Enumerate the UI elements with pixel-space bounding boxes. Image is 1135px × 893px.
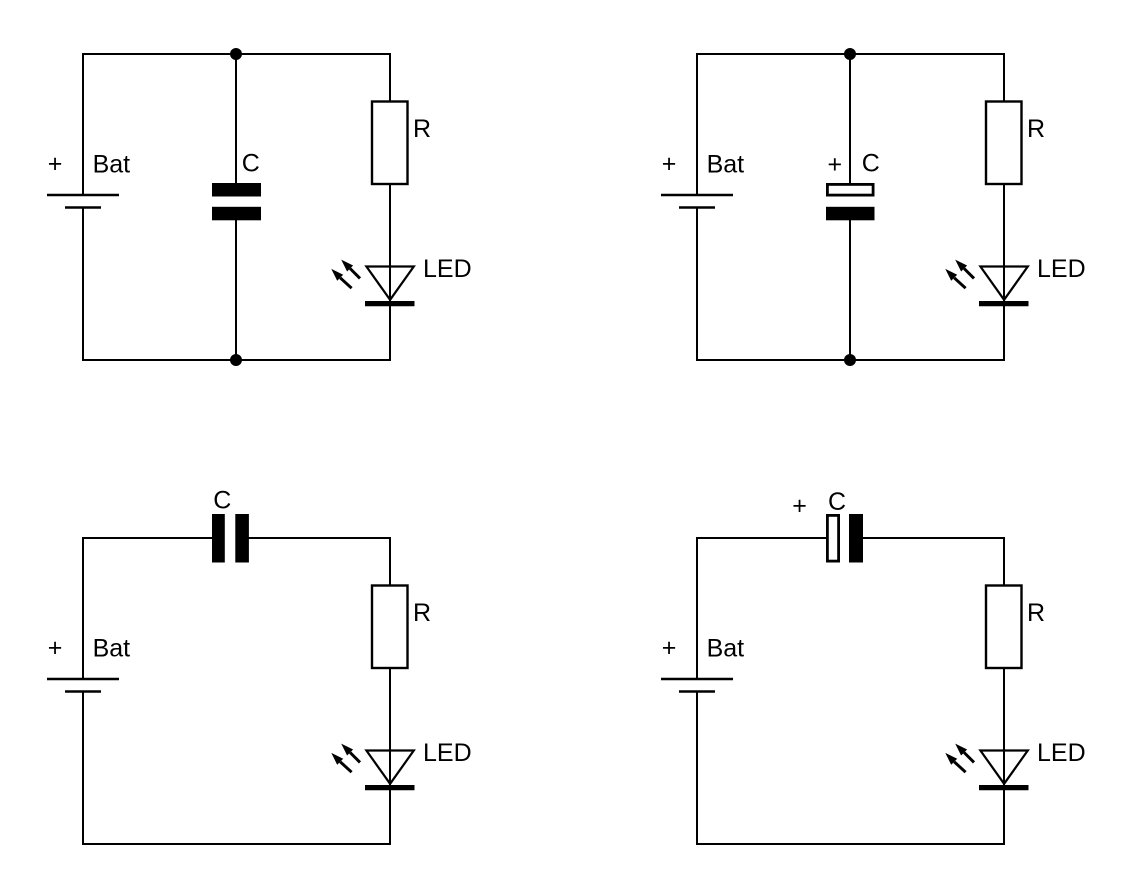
wire left rail lower segment (battery to bottom corner) of circuit 1 [82,208,84,361]
wire right rail lower segment (LED to bottom corner) of circuit 3 [389,788,391,844]
node junction dot on bottom rail of circuit 1 [230,354,242,366]
svg-text:LED: LED [1037,255,1086,283]
svg-text:+: + [792,492,807,520]
LED LED2 (diode triangle, cathode bar, light-emission arrows) [980,267,1027,300]
svg-text:+: + [662,150,677,178]
svg-text:LED: LED [423,255,472,283]
svg-text:R: R [413,115,431,143]
capacitor C1 (non-polarized, two horizontal plates) [212,183,261,197]
wire capacitor branch upper segment of circuit 2 [849,54,851,184]
svg-text:C: C [213,486,231,514]
svg-text:+: + [662,634,677,662]
wire top-right segment of circuit 4 [863,537,1004,539]
svg-text:R: R [1027,115,1045,143]
wire right rail middle segment (resistor to LED) of circuit 2 [1003,184,1005,304]
LED LED4 (diode triangle, cathode bar, light-emission arrows) [980,751,1027,784]
wire capacitor branch lower segment of circuit 2 [849,220,851,360]
wire right rail upper segment (top corner to resistor) of circuit 2 [1003,54,1005,102]
wire right rail lower segment (LED to bottom corner) of circuit 4 [1003,788,1005,844]
wire right rail upper segment (top corner to resistor) of circuit 3 [389,538,391,586]
resistor R2 (rectangular body) [986,102,1022,185]
wire top-right segment of circuit 3 [249,537,390,539]
battery Bat2 (cell symbol: long positive plate and short negative plate) [661,194,733,197]
wire left rail lower segment (battery to bottom corner) of circuit 4 [696,692,698,845]
svg-text:+: + [48,634,63,662]
wire capacitor branch upper segment of circuit 1 [235,54,237,184]
node junction dot on top rail of circuit 2 [844,48,856,60]
wire top rail of circuit 1 [83,53,390,55]
wire bottom rail of circuit 2 [697,359,1004,361]
wire right rail middle segment (resistor to LED) of circuit 1 [389,184,391,304]
wire capacitor branch lower segment of circuit 1 [235,220,237,360]
wire left rail lower segment (battery to bottom corner) of circuit 2 [696,208,698,361]
wire top-left segment of circuit 4 [697,537,827,539]
node junction dot on top rail of circuit 1 [230,48,242,60]
battery Bat4 (cell symbol: long positive plate and short negative plate) [661,678,733,681]
resistor R1 (rectangular body) [372,102,408,185]
svg-text:R: R [1027,599,1045,627]
wire right rail upper segment (top corner to resistor) of circuit 1 [389,54,391,102]
resistor R3 (rectangular body) [372,586,408,669]
wire bottom rail of circuit 1 [83,359,390,361]
svg-text:LED: LED [423,739,472,767]
svg-text:Bat: Bat [93,634,131,662]
capacitor C3 (non-polarized, two vertical plates in series with top wire) [212,514,225,563]
wire right rail middle segment (resistor to LED) of circuit 4 [1003,668,1005,788]
svg-text:R: R [413,599,431,627]
wire right rail lower segment (LED to bottom corner) of circuit 2 [1003,304,1005,360]
svg-text:C: C [862,149,880,177]
svg-text:+: + [48,150,63,178]
battery Bat1 (cell symbol: long positive plate and short negative plate) [47,194,119,197]
wire bottom rail of circuit 4 [697,843,1004,845]
wire right rail upper segment (top corner to resistor) of circuit 4 [1003,538,1005,586]
battery Bat3 (cell symbol: long positive plate and short negative plate) [47,678,119,681]
LED LED1 (diode triangle, cathode bar, light-emission arrows) [366,267,413,300]
wire top rail of circuit 2 [697,53,1004,55]
capacitor C4 (polarized series: hollow positive plate, solid negative plate) [827,515,838,561]
wire right rail lower segment (LED to bottom corner) of circuit 1 [389,304,391,360]
wire left rail upper segment (top corner to battery) of circuit 4 [696,538,698,679]
LED LED3 (diode triangle, cathode bar, light-emission arrows) [366,751,413,784]
wire left rail upper segment (top corner to battery) of circuit 2 [696,54,698,195]
wire left rail lower segment (battery to bottom corner) of circuit 3 [82,692,84,845]
wire left rail upper segment (top corner to battery) of circuit 1 [82,54,84,195]
svg-text:Bat: Bat [93,150,131,178]
svg-text:LED: LED [1037,739,1086,767]
wire left rail upper segment (top corner to battery) of circuit 3 [82,538,84,679]
wire bottom rail of circuit 3 [83,843,390,845]
svg-text:C: C [828,488,846,516]
wire right rail middle segment (resistor to LED) of circuit 3 [389,668,391,788]
resistor R4 (rectangular body) [986,586,1022,669]
node junction dot on bottom rail of circuit 2 [844,354,856,366]
capacitor C2 (polarized: hollow positive plate, solid negative plate) [827,184,873,195]
wire top-left segment of circuit 3 [83,537,213,539]
svg-text:+: + [827,150,842,178]
svg-text:Bat: Bat [707,150,745,178]
svg-text:C: C [242,149,260,177]
svg-text:Bat: Bat [707,634,745,662]
